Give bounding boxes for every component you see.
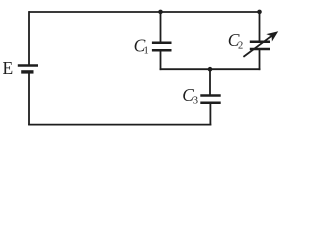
wire: C2 branch lower (C2 bottom plate to middle wire) (259, 49, 261, 70)
wire: top horizontal (battery + to C1/C2 tops) (29, 11, 260, 13)
node dot: C3 tap on middle wire (208, 67, 213, 72)
node dot: C1 tap on top wire (158, 10, 163, 15)
wire: bottom horizontal (battery - to C3 bottom) (28, 124, 211, 126)
wire: left vertical lower (battery - down to bottom wire) (28, 72, 30, 125)
wire: C3 branch lower (C3 bottom plate to bottom wire) (209, 103, 211, 126)
svg-text:1: 1 (144, 46, 149, 57)
capacitor C3 top plate (200, 94, 220, 97)
node dot: C2 corner on top wire (257, 10, 262, 15)
wire: left vertical upper (top wire down to battery top plate) (28, 11, 30, 65)
battery E top plate (long) (18, 64, 38, 66)
capacitor C2 top plate (250, 40, 270, 43)
wire: C2 branch upper (top wire to C2 top plate) (259, 12, 261, 42)
svg-text:3: 3 (193, 95, 198, 106)
variable capacitor C2 arrow shaft (243, 35, 272, 57)
capacitor C1 bottom plate (152, 49, 172, 52)
svg-text:E: E (3, 58, 14, 78)
wire: C3 branch upper (middle wire to C3 top plate) (209, 69, 211, 95)
capacitor C3 bottom plate (200, 102, 220, 105)
wire: C1 branch lower (C1 bottom plate to middle wire) (160, 50, 162, 70)
capacitor C2 bottom plate (250, 48, 270, 51)
wire: middle horizontal (C1 bottom to C2 bottom, C3 tap) (160, 68, 261, 70)
svg-text:2: 2 (238, 40, 243, 51)
variable capacitor C2 arrowhead (266, 31, 278, 41)
wire: C1 branch upper (top wire to C1 top plate) (160, 12, 162, 43)
capacitor C1 top plate (152, 41, 172, 44)
battery E bottom plate (short thick) (21, 70, 33, 73)
